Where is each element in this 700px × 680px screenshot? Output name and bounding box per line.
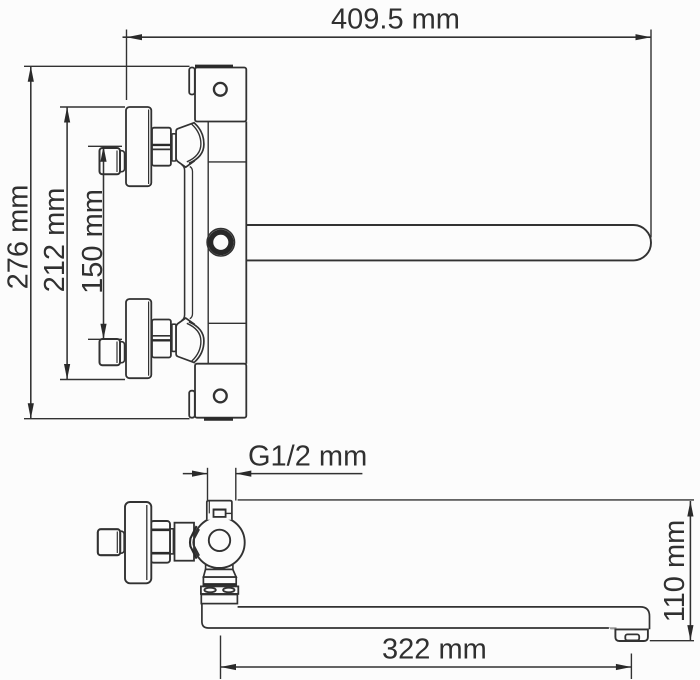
ext 110 bottom (650, 640, 694, 642)
svg-text:G1/2 mm: G1/2 mm (248, 441, 367, 473)
handle cap top (126, 107, 151, 186)
ext 322 right (630, 654, 632, 680)
spout tube bottom view (202, 604, 609, 628)
dome crescent inner top (187, 124, 201, 162)
collar (201, 595, 237, 604)
ext 150 top (88, 145, 122, 147)
dim 110 (689, 501, 691, 641)
knob adapter bottom (118, 342, 125, 363)
dim 276 line (30, 66, 32, 418)
handle cap bottom (126, 299, 151, 378)
knob bottom view (98, 529, 120, 555)
screw hole bottom (214, 390, 227, 403)
center screw rings (207, 229, 234, 256)
dim 150 line (103, 146, 105, 339)
arrow right 409.5 (636, 34, 652, 40)
ext 322 left (220, 636, 222, 680)
svg-text:212 mm: 212 mm (39, 188, 71, 293)
svg-text:150 mm: 150 mm (77, 189, 109, 294)
knob adapter top (118, 151, 125, 172)
svg-text:322 mm: 322 mm (382, 634, 487, 666)
dome crescent outer top (189, 123, 204, 163)
ext line 409.5 right (650, 30, 652, 238)
spout pivot inner circle (209, 530, 230, 551)
bar front edge outer (182, 165, 185, 321)
svg-text:276 mm: 276 mm (2, 185, 34, 290)
knob adapter bottom view (118, 531, 124, 553)
body inner vertical line (207, 122, 209, 364)
knob top (100, 148, 121, 174)
handle disk bottom view (125, 502, 151, 583)
ext 212 bottom (60, 379, 125, 381)
valve dome bottom (176, 318, 195, 363)
wall plate top (195, 68, 246, 122)
dark edge smudge bottom (204, 418, 233, 421)
ext G1/2 left (207, 468, 209, 500)
ellipse ring (201, 586, 238, 594)
ext line 409.5 left (126, 30, 128, 101)
washer bottom (172, 324, 176, 351)
dim 322 (221, 666, 632, 668)
aerator (615, 629, 648, 641)
valve body circle (194, 517, 245, 568)
ext 212 top (60, 106, 125, 108)
body collar tangent top (208, 161, 246, 163)
body right edge (245, 122, 247, 364)
ext 276 bottom (24, 418, 190, 420)
body collar tangent bottom (208, 322, 246, 324)
dim G1/2 right segment (236, 473, 363, 475)
ext 150 bottom (88, 338, 122, 340)
arrow left 409.5 (127, 34, 143, 40)
step before aerator (609, 627, 617, 629)
svg-text:110 mm: 110 mm (659, 520, 691, 623)
wall plate bottom (195, 364, 246, 418)
dark edge smudge top (195, 65, 233, 68)
ext G1/2 right (235, 468, 237, 501)
valve dome top (176, 122, 195, 167)
knob bottom (100, 339, 121, 365)
ext 110 top (238, 499, 694, 501)
dome crescent inner bottom (187, 323, 201, 361)
crescent on block (190, 526, 197, 559)
washer top (172, 134, 176, 161)
ext 276 top (24, 65, 190, 67)
dome crescent outer bottom (189, 322, 204, 362)
cone under circle (203, 569, 236, 577)
spout (plan) (246, 225, 651, 260)
inlet stub G1/2 (207, 501, 232, 520)
hex nut bottom (152, 320, 171, 358)
block left of circle (175, 523, 195, 561)
hex nut top (152, 128, 171, 166)
svg-text:409.5 mm: 409.5 mm (331, 4, 460, 36)
dim G1/2 left segment (183, 473, 208, 475)
washer bottom view (170, 529, 173, 554)
wall plate tab top (189, 68, 195, 95)
circle-to-cone tangent stubs (205, 565, 207, 570)
bar front edge inner (190, 167, 193, 319)
aerator slot (625, 634, 639, 640)
band (203, 577, 236, 585)
wall plate tab bottom (189, 391, 195, 418)
dim 212 line (66, 107, 68, 380)
screw hole top (214, 83, 227, 96)
dim 409.5 line (123, 36, 652, 38)
hex nut bottom view (151, 521, 170, 563)
